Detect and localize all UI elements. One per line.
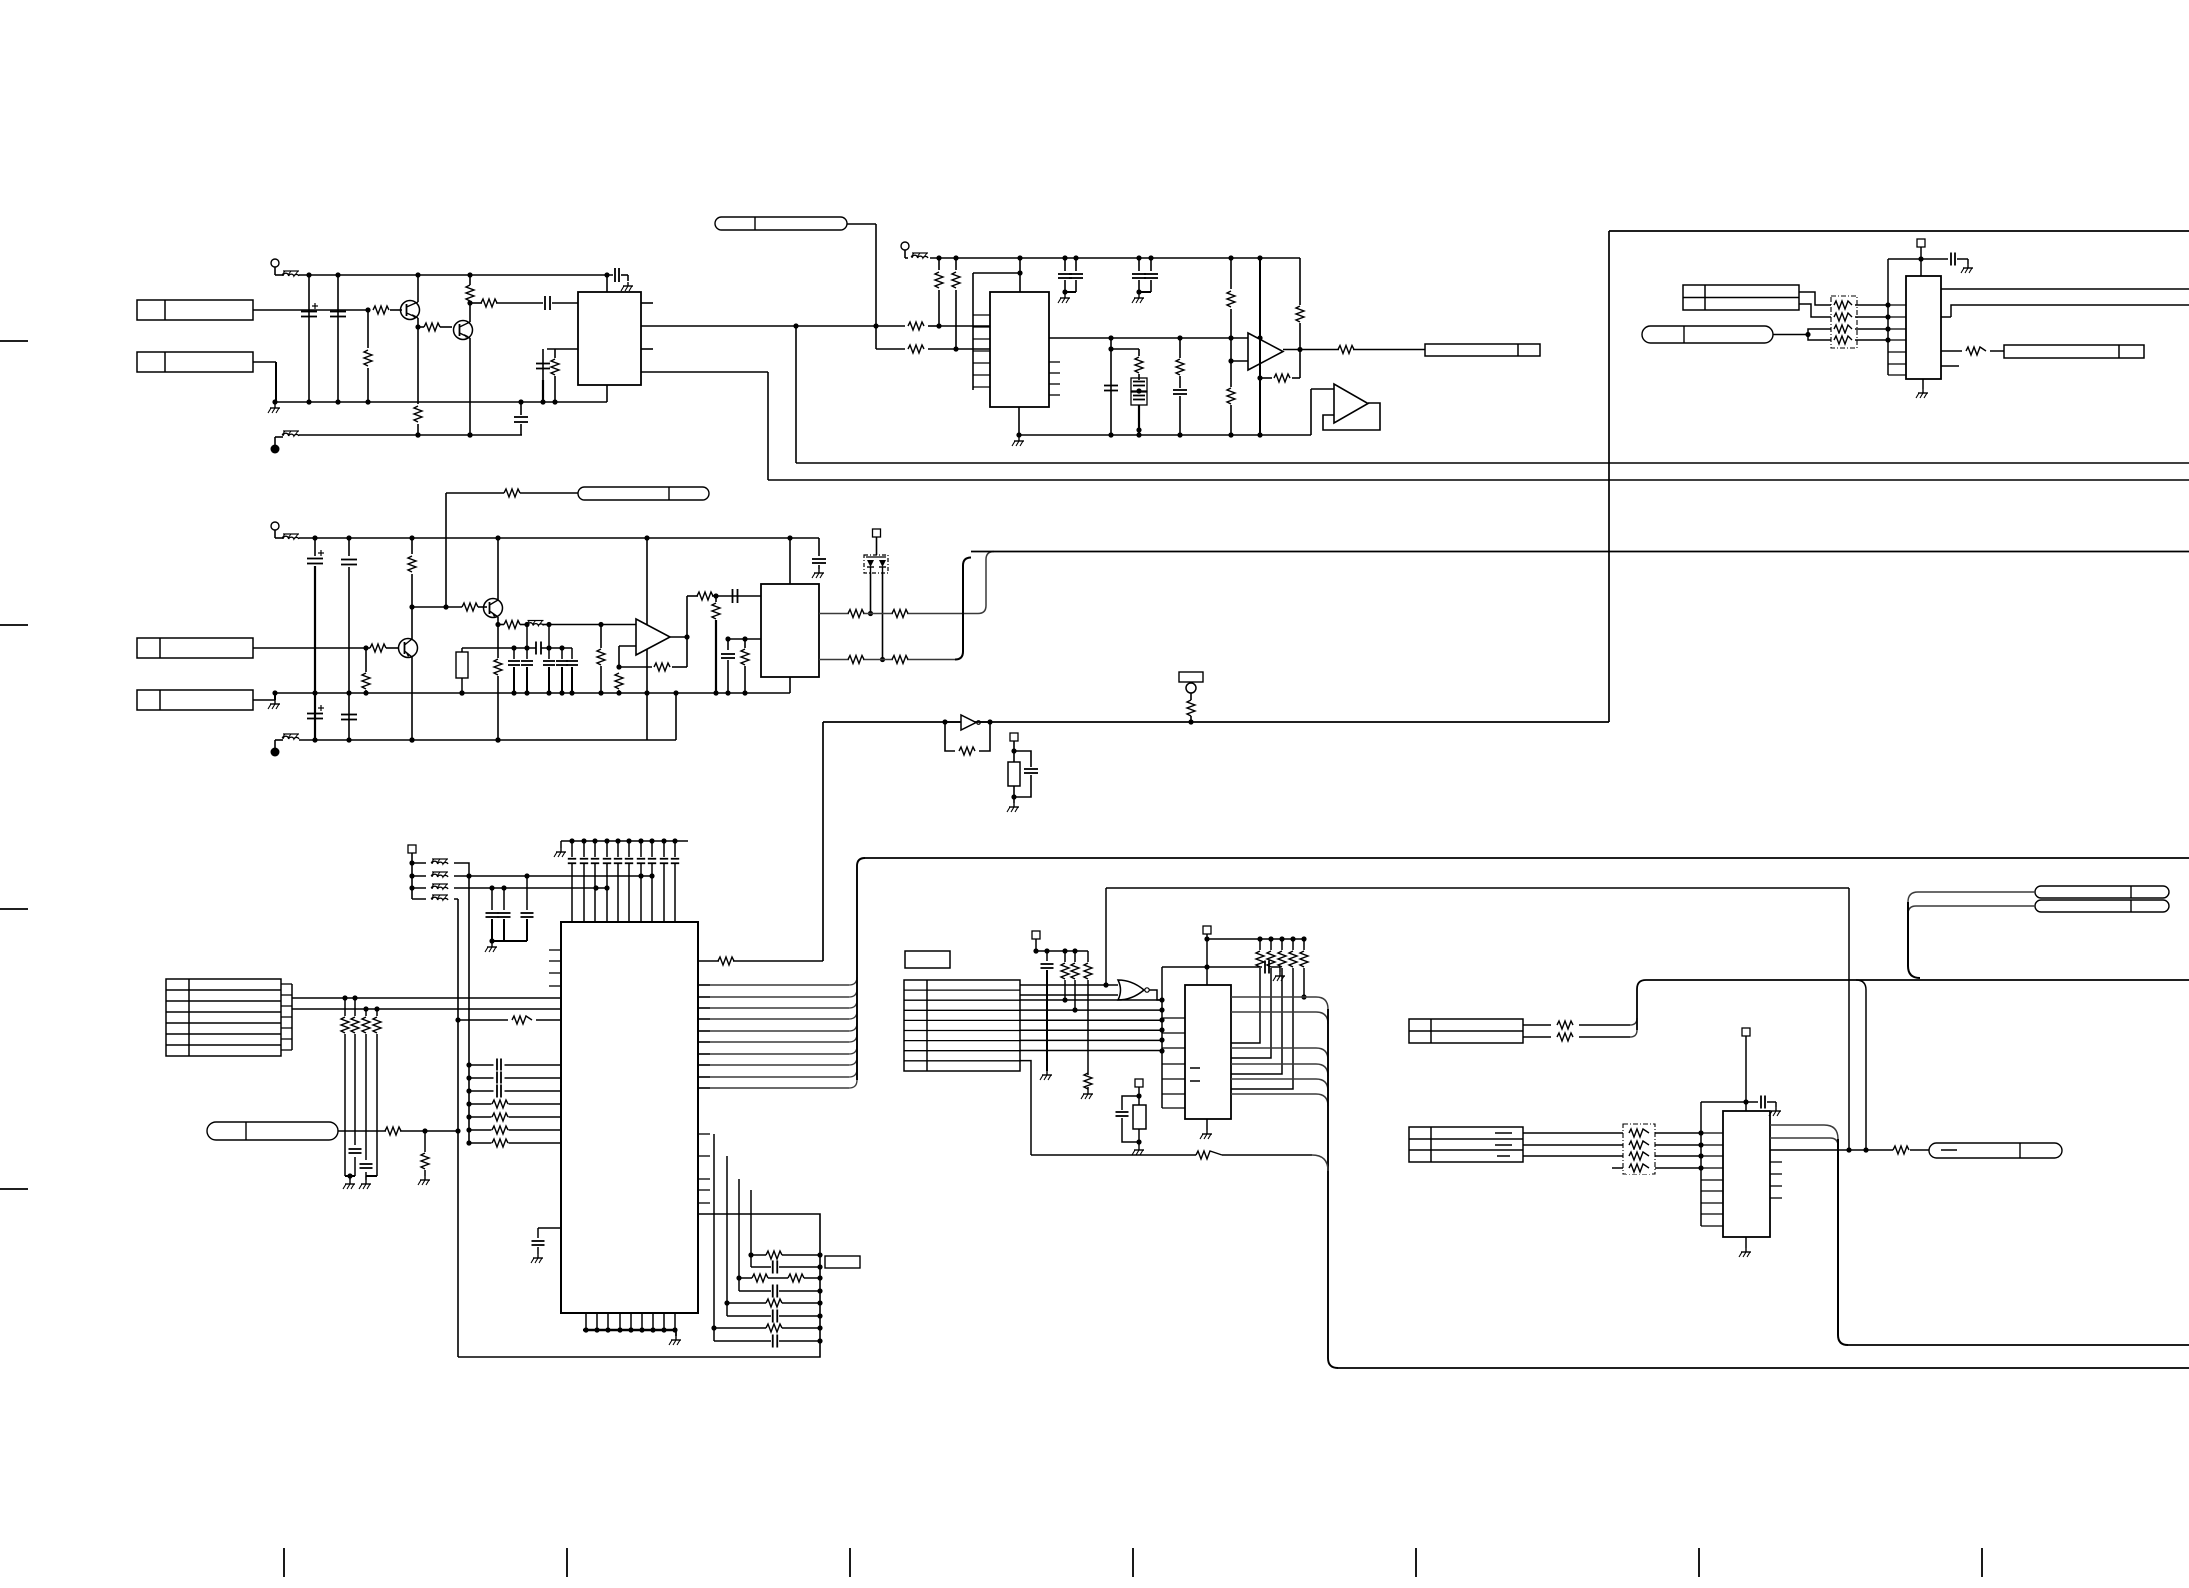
wire x1106 drop: [1103, 888, 1108, 988]
resistor R37: [892, 656, 908, 664]
wire U5A feedback: [619, 634, 690, 667]
label box L4: [905, 951, 950, 968]
wire S8a lead: [1908, 892, 2035, 902]
resistor R11: [908, 345, 924, 353]
resistor R29: [615, 667, 623, 693]
wire U11 bottom: [1916, 379, 1928, 398]
resistor R22: [504, 489, 520, 497]
label box L2: [1179, 672, 1203, 682]
connector J3: [137, 638, 253, 658]
connector J6: [904, 980, 1020, 1071]
inductor L10: [412, 895, 458, 900]
wire J7 row1: [1523, 1018, 1637, 1025]
wire J8 rows: [1523, 1133, 1623, 1168]
chassis ground C7: [1058, 294, 1070, 303]
resistor R59: [1557, 1021, 1573, 1029]
connector J1: [137, 300, 253, 320]
inductor L8: [412, 872, 655, 879]
enclosure wire: [458, 1214, 820, 1357]
wire D1 right leg: [880, 573, 885, 662]
resistor R27: [370, 644, 386, 652]
wire S7 out: [1773, 329, 1831, 340]
wire x1849 drop: [1846, 888, 1851, 1153]
connector J7: [1409, 1019, 1523, 1043]
inductor L2: [282, 431, 299, 436]
resistor pack RP1: [1623, 1124, 1655, 1174]
resistor R16: [1227, 258, 1235, 338]
wire y463 branch: [795, 326, 797, 463]
capacitor ladder: [456, 625, 578, 696]
inductor L4: [282, 534, 299, 539]
transistor Q4: [484, 538, 503, 627]
resistor R55: [1231, 939, 1297, 1089]
capacitor C12 electrolytic: [307, 538, 324, 740]
wire harness y980: [1646, 979, 2189, 981]
wire J7 row2: [1523, 1030, 1637, 1037]
resistor R53: [1231, 939, 1275, 1058]
wire U1 bottom pin: [606, 385, 608, 402]
square terminal TP6: [1135, 1079, 1143, 1099]
decoupling capacitor bank: [561, 838, 688, 922]
capacitor C22: [343, 1140, 362, 1189]
wire y349 stub: [1108, 346, 1139, 351]
capacitor C7 pair: [1058, 258, 1083, 295]
terminal T4: [271, 522, 283, 538]
resistor R31: [697, 592, 713, 600]
connector J4: [137, 690, 253, 710]
gate G1 nor: [1020, 980, 1162, 1000]
wire U10 bottom: [1739, 1237, 1751, 1257]
wire U10 out y1138: [1770, 1138, 1838, 1146]
IC U10: [1723, 1111, 1770, 1237]
resistor R3 emitter: [414, 406, 422, 438]
capacitor C20: [498, 888, 511, 941]
resistor bank bus: [1207, 936, 1307, 941]
wire harness y480: [768, 479, 2189, 481]
wire S1 to node: [847, 224, 879, 349]
resistor R28: [362, 648, 370, 696]
bottom edge tick: [283, 1548, 285, 1577]
wire U3A out: [1283, 347, 1303, 352]
wire U1 pin y349: [547, 348, 578, 350]
capacitor C13: [341, 538, 357, 740]
wire U2 left bracket: [973, 273, 1020, 390]
transistor Q2: [454, 303, 473, 438]
stadium S8a: [2035, 886, 2169, 898]
wire J6 row7 corner: [1020, 1061, 1031, 1155]
bottom edge tick: [1981, 1548, 1983, 1577]
pin dashes U9: [1190, 1068, 1200, 1081]
wire U9 bottom: [1200, 1119, 1212, 1139]
op-amp U5A: [636, 619, 670, 655]
wire rail V3 y258: [930, 255, 1300, 260]
capacitor C19: [486, 888, 499, 941]
stadium S7: [1642, 326, 1773, 343]
op-amp U3A: [1248, 333, 1283, 370]
resistor R54: [1231, 939, 1286, 1074]
wire rail GND1a y435: [299, 432, 522, 437]
wire U10 out y1125: [1770, 1125, 1838, 1139]
wire V5 to U4a bottom: [789, 677, 791, 693]
resistor R60: [1557, 1033, 1573, 1041]
square terminal TP7: [1742, 1028, 1750, 1111]
wire U4A out y659: [819, 558, 971, 660]
capacitor C17: [721, 654, 735, 693]
wire RP2 to U11: [1855, 302, 1891, 342]
wire bus x1328: [1328, 1009, 1338, 1368]
resistor R41 box: [1008, 751, 1020, 800]
resistor R40: [1187, 700, 1195, 725]
wire J9 row1: [1799, 292, 1831, 305]
capacitor C5: [536, 349, 550, 405]
wire J6 rows: [1020, 1000, 1162, 1051]
label S2: [578, 487, 709, 500]
resistor R33: [741, 639, 749, 693]
resistor R36: [848, 656, 864, 664]
capacitor C8: [1104, 338, 1118, 435]
wire harness y1368: [1338, 1367, 2189, 1369]
IC U2: [990, 292, 1049, 407]
wire J2 drop: [253, 362, 276, 402]
wire S8b lead: [1908, 906, 2035, 914]
wire y493 to S2: [446, 492, 578, 494]
resistor R15: [1176, 338, 1184, 388]
resistor R2: [364, 310, 372, 402]
wire U3A out line: [1300, 349, 1425, 351]
wire U10 top: [1701, 1101, 1758, 1103]
wire J5 line y1009: [292, 1006, 561, 1011]
wire RP1 to U10: [1655, 1130, 1704, 1170]
wire U9 top y967: [1162, 966, 1262, 968]
wire TP2 gnd: [1007, 797, 1019, 812]
buffer U7: [942, 715, 992, 730]
wire rail GND1b y435: [1016, 432, 1311, 437]
capacitor C21: [521, 876, 534, 941]
wire U9 bracket: [1159, 967, 1185, 1108]
wire rail V4 y538: [299, 535, 819, 540]
capacitor C29: [1951, 253, 1973, 274]
left edge tick: [0, 624, 28, 626]
capacitor C27: [1116, 1096, 1140, 1142]
wire Q1 base: [253, 307, 402, 312]
wire x447 riser: [445, 493, 447, 607]
wire Q2 collector to IC: [470, 302, 578, 304]
resistor R47: [385, 1127, 401, 1135]
pin ticks U2 right: [1049, 362, 1060, 395]
inductor L1: [282, 271, 299, 276]
resistor R56: [1300, 939, 1308, 1000]
resistor R43: [351, 998, 359, 1145]
wire harness y551: [971, 551, 2189, 553]
wire J9 row2: [1799, 304, 1831, 317]
transistor Q1: [401, 275, 420, 404]
capacitor C9 stack: [1131, 378, 1147, 435]
resistor R39: [959, 747, 975, 755]
label box L3: [825, 1256, 860, 1268]
wire y326 to U2: [876, 323, 990, 328]
stadium S9: [1929, 1143, 2062, 1158]
resistor R46 y1020: [458, 1016, 561, 1024]
IC U1: [578, 292, 641, 385]
wire U7 feedback: [945, 722, 990, 751]
terminal T6: [1186, 683, 1196, 700]
bottom edge tick: [566, 1548, 568, 1577]
inductor L6: [282, 734, 299, 739]
resistor R62: [1966, 347, 1986, 355]
diode pack D1: [864, 555, 888, 573]
resistor R57 box: [1133, 1096, 1146, 1145]
wire rail V4 end cap: [812, 538, 826, 578]
square terminal TP3: [408, 845, 416, 899]
connector J9: [1683, 285, 1799, 310]
wire U11 out y305: [1941, 305, 2189, 317]
resistor pack RP2: [1831, 296, 1857, 348]
wire Q4 base y607: [412, 604, 487, 609]
wire U3B plus elbow: [1311, 389, 1334, 435]
transistor Q3: [399, 607, 418, 743]
resistor R23: [462, 603, 478, 611]
left edge tick: [0, 340, 28, 342]
bottom edge tick: [849, 1548, 851, 1577]
capacitor C25: [1040, 951, 1054, 1080]
capacitor C28: [1761, 1096, 1781, 1117]
connector J5: [166, 979, 281, 1056]
wire U1 top pin: [606, 275, 608, 292]
resistor R26: [597, 625, 605, 696]
inductor L9: [412, 884, 610, 891]
wire pin2 src: [745, 638, 757, 640]
wire rail V2 y402: [272, 399, 607, 404]
wire U11 stub y366: [1941, 365, 1959, 367]
label S1: [715, 217, 847, 230]
resistor R17: [1227, 361, 1235, 435]
resistor R7: [551, 349, 559, 405]
wire J5 bracket: [281, 984, 292, 1050]
capacitor C11 pair: [1132, 258, 1158, 295]
IC U4A: [761, 584, 819, 677]
pin ticks U8 right low: [698, 1134, 710, 1203]
wire U4A out y613: [819, 552, 994, 614]
wire U2 bottom: [1018, 407, 1020, 435]
capacitor C14 electrolytic: [307, 705, 324, 719]
square terminal TP5: [1203, 926, 1211, 985]
terminal T3: [901, 242, 909, 258]
terminal T1: [271, 259, 283, 275]
RC comb U8 right: [711, 1134, 822, 1348]
resistor R10: [908, 322, 924, 330]
op-amp U3B: [1334, 384, 1368, 423]
wire U10 bracket: [1701, 1102, 1723, 1226]
resistor R6: [481, 299, 497, 307]
resistor R18: [1296, 306, 1304, 378]
resistor R61: [1893, 1146, 1909, 1154]
inductor L7: [412, 859, 469, 876]
resistor R44: [362, 1009, 370, 1160]
wire U4a pin2 y639: [725, 636, 761, 650]
resistor R52: [1231, 939, 1264, 1043]
resistor R14: [1135, 349, 1143, 380]
connector J2: [137, 352, 253, 372]
resistor R20: [1338, 346, 1354, 354]
wire U2 top: [1017, 258, 1022, 292]
wire feedback y378: [1257, 375, 1300, 380]
IC U11: [1906, 276, 1941, 379]
left edge tick: [0, 1188, 28, 1190]
chassis ground J4: [268, 695, 280, 709]
capacitor C26: [1265, 961, 1285, 982]
capacitor C18: [1014, 751, 1038, 797]
resistor R4: [424, 323, 440, 331]
square terminal TP1: [873, 529, 881, 555]
capacitor C2 electrolytic: [301, 275, 318, 402]
wire U11 out y351: [1941, 350, 2004, 352]
resistor R58: [1196, 1151, 1222, 1159]
resistor R21: [408, 538, 416, 610]
resistor R49: [1061, 951, 1069, 1003]
wire U1 out y326: [641, 323, 876, 328]
wire U2 out y338: [1049, 335, 1263, 340]
wire U1 y372 route: [641, 372, 768, 480]
label L1: [1425, 344, 1540, 356]
resistor R38: [718, 957, 734, 965]
wire bus x458: [455, 899, 460, 1357]
wire TP6 gnd: [1132, 1142, 1144, 1155]
wire net route y722: [823, 231, 2189, 961]
chassis ground rail V2: [268, 404, 280, 413]
capacitor C10: [1173, 390, 1187, 435]
wire U5A minus elbow: [616, 646, 636, 670]
ground caps: [485, 938, 527, 952]
wire D1 left leg: [868, 573, 873, 616]
wire harness y1345: [1848, 1344, 2189, 1346]
resistor R42: [341, 998, 349, 1140]
wire U5A out: [670, 593, 761, 641]
inductor L3: [911, 253, 928, 258]
capacitor C4: [545, 296, 550, 310]
wire U11 top: [1888, 258, 1948, 260]
wire U11 bracket: [1888, 259, 1906, 375]
resistor R25: [494, 625, 502, 743]
chassis ground C11: [1132, 294, 1144, 303]
resistor R32: [712, 596, 720, 693]
wire rail V6 y740: [299, 737, 676, 742]
wire U1 pin stub: [641, 302, 653, 304]
terminal T2: [271, 437, 284, 454]
wire Q3 base: [253, 645, 398, 650]
capacitor C23: [359, 1164, 377, 1189]
wire U3A minus: [1228, 338, 1248, 364]
label L7: [2004, 345, 2144, 358]
chassis ground U8: [669, 1330, 681, 1345]
capacitor C3: [330, 275, 346, 402]
resistor R30: [654, 663, 670, 671]
capacitor C6: [514, 399, 528, 435]
resistor R34: [848, 610, 864, 618]
resistor R50: [1071, 951, 1079, 1013]
wire branch x1866: [1856, 980, 1869, 1153]
wire harness y888: [1106, 887, 1849, 889]
capacitor C16: [733, 589, 738, 603]
capacitor C24 stub: [531, 1228, 561, 1263]
bottom edge tick: [1415, 1548, 1417, 1577]
wire bus TP4: [1036, 948, 1088, 953]
wire harness y858: [865, 857, 2189, 859]
resistor R13: [952, 258, 960, 349]
wire U1 pin stub2: [641, 348, 653, 350]
square terminal TP2: [1010, 733, 1018, 754]
wire Q4 emitter y624: [498, 622, 636, 627]
left edge tick: [0, 908, 28, 910]
wire rail V5 y693: [275, 690, 790, 695]
capacitor C1 to chassis: [615, 268, 619, 282]
square terminal TP4: [1032, 931, 1040, 954]
wire U4A top: [789, 538, 791, 584]
wire J4 out: [253, 690, 278, 700]
signal bends U9: [1231, 997, 1328, 1106]
pin ticks U8 left: [549, 950, 561, 986]
terminal T5: [271, 740, 284, 757]
resistor R45: [373, 1009, 381, 1170]
wire V3 corner: [1299, 258, 1301, 305]
wire rail V1 y275: [299, 272, 628, 281]
signal bundle U8 right: [698, 858, 865, 1088]
chassis ground: [621, 282, 633, 291]
wire GND1 corner: [0, 0, 1, 1]
stadium S8b: [2035, 900, 2169, 912]
wire bus x1637: [1637, 980, 1646, 1030]
resistor R35: [892, 610, 908, 618]
wire Q1-Q2 base: [415, 324, 452, 329]
resistor R48: [418, 1131, 430, 1185]
wire y349 to U2: [876, 346, 990, 351]
resistor R12: [935, 258, 943, 326]
square terminal TP8: [1917, 239, 1925, 276]
pin ticks U10 right: [1770, 1162, 1782, 1198]
wire y1155 line: [1031, 1155, 1328, 1171]
wire bus x1838: [1838, 1139, 1848, 1345]
wire x647 long: [644, 535, 649, 740]
wire x676 drop: [675, 693, 677, 740]
connector J8: [1409, 1127, 1523, 1162]
RC array U8 left: [469, 1058, 561, 1149]
wire harness y463: [796, 462, 2189, 464]
resistor R19: [1274, 374, 1290, 382]
bottom edge tick: [1132, 1548, 1134, 1577]
IC U8 main: [561, 922, 698, 1313]
chassis ground U2: [1012, 437, 1024, 446]
capacitor C15: [341, 715, 357, 720]
wire J5 line y998: [292, 995, 561, 1000]
wire U11 out y289: [1941, 288, 2189, 290]
wire U6 y961 line: [698, 960, 823, 962]
wire bus x1908: [1908, 902, 1920, 978]
resistor R24: [504, 621, 520, 629]
stadium S4: [207, 1122, 338, 1140]
resistor R5: [466, 275, 474, 306]
resistor R51: [1081, 951, 1093, 1099]
IC U9: [1185, 985, 1231, 1119]
wire U10 out y1150: [1770, 1149, 1929, 1151]
wire U3B feedback: [1323, 403, 1380, 430]
ground top bus: [554, 841, 566, 857]
inductor L5: [527, 621, 544, 626]
resistor R1: [373, 306, 389, 314]
wire U8 bottom pins: [583, 1313, 678, 1333]
wire bold x1260: [1259, 258, 1261, 435]
wire S4 out: [338, 1128, 458, 1133]
bottom edge tick: [1698, 1548, 1700, 1577]
wire bus x469: [466, 876, 471, 1146]
